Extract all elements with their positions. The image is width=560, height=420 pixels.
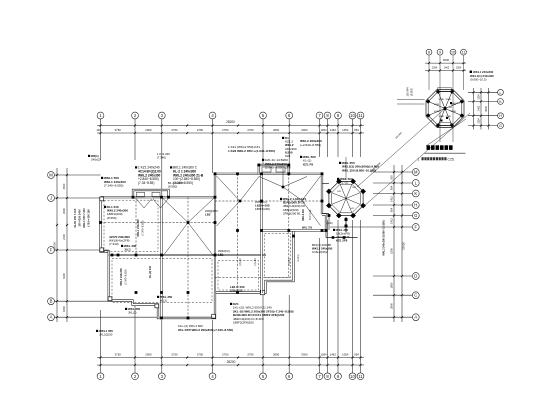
svg-text:8: 8 — [428, 51, 430, 55]
annotation cluster D — [228, 145, 275, 153]
svg-text:C16L2(F8)2: C16L2(F8)2 — [312, 250, 328, 254]
left grid leader lines — [54, 174, 100, 176]
svg-text:15000: 15000 — [53, 242, 57, 250]
svg-text:954: 954 — [390, 207, 394, 212]
svg-text:(8.550): (8.550) — [107, 216, 117, 220]
bottom dimension line total 28200 — [97, 364, 364, 366]
svg-text:C25.: C25. — [448, 157, 455, 161]
roof hip diagonals mid hall — [217, 176, 241, 201]
svg-text:15000: 15000 — [402, 242, 406, 250]
annotation cluster tower bottom — [333, 228, 350, 243]
svg-text:L: L — [500, 91, 502, 95]
annotation cluster below building — [230, 302, 294, 325]
svg-text:100.97%: 100.97% — [451, 103, 460, 105]
bottom grid extension lines — [100, 310, 102, 373]
svg-text:(2)L50: (2)L50 — [239, 258, 242, 266]
detail right dimension lines — [473, 88, 475, 130]
stair tower connection walls — [322, 183, 329, 185]
svg-text:5200: 5200 — [390, 248, 394, 254]
svg-text:9: 9 — [439, 51, 441, 55]
svg-text:1054: 1054 — [320, 128, 327, 132]
svg-text:WXB1: WXB1 — [446, 116, 453, 118]
top dimension line total 28200 — [97, 125, 364, 127]
stair tower octagon on plan — [329, 181, 363, 215]
svg-text:2750: 2750 — [247, 128, 254, 132]
svg-text:1800: 1800 — [390, 282, 394, 288]
detail grid extension lines — [428, 55, 430, 90]
svg-text:188F2(2F8)200: 188F2(2F8)200 — [233, 321, 254, 325]
svg-text:(8.550): (8.550) — [168, 185, 177, 189]
svg-text:A: A — [414, 315, 417, 320]
svg-text:954: 954 — [354, 128, 359, 132]
svg-text:2900: 2900 — [145, 128, 152, 132]
bottom grid bubbles 1-11 — [97, 373, 104, 380]
svg-text:KL2(1): KL2(1) — [297, 254, 300, 261]
detail right grid bubbles L K H G — [498, 89, 504, 95]
interior dashed beam x188 — [187, 197, 189, 318]
svg-text:M: M — [414, 170, 418, 175]
svg-text:1(L4F): 1(L4F) — [326, 223, 333, 225]
svg-text:2F8@200: 2F8@200 — [230, 289, 243, 293]
svg-text:1 K23 WKL2 350=+(1.340~8.550): 1 K23 WKL2 350=+(1.340~8.550) — [228, 149, 275, 153]
svg-text:10: 10 — [350, 374, 355, 379]
slab edge dashed inset room A — [104, 200, 158, 252]
svg-text:1054: 1054 — [456, 67, 462, 70]
bottom dimension line segments — [97, 357, 364, 359]
corner open pads — [100, 197, 104, 201]
svg-text:G: G — [499, 124, 502, 128]
leader line title — [426, 119, 466, 146]
svg-text:WKL1 240x300: WKL1 240x300 — [137, 219, 140, 237]
svg-text:3300: 3300 — [301, 353, 308, 357]
svg-text:100 4150 2400: 100 4150 2400 — [78, 209, 82, 227]
svg-text:(7.340~8.550): (7.340~8.550) — [142, 220, 145, 235]
svg-text:LB2: LB2 — [205, 213, 211, 217]
column pads on walls — [160, 196, 163, 199]
svg-text:(KL2): (KL2) — [160, 299, 167, 303]
svg-text:2750: 2750 — [247, 353, 254, 357]
svg-text:2750: 2750 — [222, 128, 229, 132]
svg-text:3750: 3750 — [115, 353, 122, 357]
svg-text:WXB1: WXB1 — [446, 99, 453, 101]
svg-text:(7.340): (7.340) — [157, 155, 166, 159]
annotation inner room labels — [104, 205, 128, 220]
svg-text:(4)L50: (4)L50 — [254, 258, 257, 266]
annotation cluster E2 — [262, 158, 291, 170]
svg-text:1054: 1054 — [478, 94, 481, 100]
svg-text:WKL1 500 7.340: WKL1 500 7.340 — [82, 208, 86, 228]
detail right leader lines — [468, 91, 498, 93]
left grid bubbles M J F B A — [48, 172, 55, 179]
svg-text:3600: 3600 — [443, 58, 450, 62]
svg-text:(4)L50: (4)L50 — [288, 258, 291, 266]
svg-text:(9.800~10.5): (9.800~10.5) — [470, 77, 487, 81]
svg-text:KZ1 2F8: KZ1 2F8 — [336, 239, 348, 243]
svg-text:WKL2 240x300: WKL2 240x300 — [120, 268, 123, 286]
annotation cluster bottom mid — [178, 324, 233, 332]
roof hip diagonals room 2 — [163, 199, 188, 223]
svg-text:KL-(2) 240: KL-(2) 240 — [149, 265, 152, 278]
svg-text:11: 11 — [358, 374, 363, 379]
svg-text:C: C — [414, 293, 417, 298]
stair tower spokes — [346, 199, 360, 205]
svg-text:2800: 2800 — [390, 303, 394, 309]
svg-text:WKL2 240x300 (9.800~10.550): WKL2 240x300 (9.800~10.550) — [383, 220, 386, 255]
dormer detail bottom label box — [440, 123, 451, 126]
svg-text:WXB1: WXB1 — [434, 111, 441, 113]
right grid leader lines — [373, 171, 412, 173]
svg-text:(7.340~8.550): (7.340~8.550) — [104, 184, 123, 188]
top dimension line segments — [97, 132, 364, 134]
svg-text:L*B h=100 150: L*B h=100 150 — [87, 209, 91, 227]
svg-text:1800: 1800 — [62, 306, 66, 312]
svg-text:2500: 2500 — [62, 183, 66, 189]
detail top dimension lines — [425, 62, 466, 64]
detail left leader lines — [397, 99, 425, 101]
hanging room walls — [215, 231, 294, 293]
svg-text:WXB1: WXB1 — [439, 99, 446, 101]
detail grid bubbles 8-11 — [426, 49, 432, 55]
annotation cluster B — [135, 166, 161, 186]
slab edge dashed inset room lower-mid — [218, 261, 259, 291]
annotation cluster bottom left — [125, 307, 141, 315]
svg-text:(7.340): (7.340) — [109, 242, 119, 246]
svg-text:11: 11 — [358, 113, 363, 118]
svg-text:1462: 1462 — [478, 105, 481, 111]
interior dashed beam x288.75 — [288, 174, 290, 278]
svg-text:1054: 1054 — [432, 67, 438, 70]
svg-text:954: 954 — [390, 185, 394, 190]
svg-text:1054: 1054 — [342, 128, 349, 132]
annotation cluster G — [300, 155, 316, 166]
interior wall x261.5 — [261, 174, 263, 293]
drawing title — [427, 145, 453, 150]
svg-text:105.994: 105.994 — [407, 87, 410, 97]
top grid bubbles 1-11 — [97, 112, 104, 119]
interior dashed beam y277.5 — [264, 277, 291, 279]
svg-text:3750: 3750 — [115, 128, 122, 132]
svg-text:A: A — [50, 315, 53, 320]
top-center dormer bay wall — [259, 165, 289, 174]
leader line to enlarged detail 1 — [357, 109, 445, 188]
svg-text:2750: 2750 — [171, 353, 178, 357]
svg-text:2F8@200 B1: 2F8@200 B1 — [283, 211, 301, 215]
building outer wall — [101, 196, 216, 198]
right vertical dimension lines — [393, 165, 395, 322]
svg-text:2750: 2750 — [197, 353, 204, 357]
lower roof edge right of hanging room — [325, 231, 327, 238]
svg-text:JKL(2): JKL(2) — [128, 311, 137, 315]
svg-text:1462: 1462 — [330, 128, 337, 132]
annotation cluster C — [170, 166, 204, 186]
slab edge dashed inset room lower-left — [112, 259, 212, 303]
svg-text:954: 954 — [354, 353, 359, 357]
svg-text:1462: 1462 — [444, 67, 450, 70]
detail annotation text right — [470, 71, 472, 73]
annotation cluster F — [300, 139, 322, 147]
svg-text:240x(2): 240x(2) — [91, 157, 101, 161]
interior dashed beam x134.5 — [135, 197, 137, 255]
svg-text:2750: 2750 — [197, 128, 204, 132]
svg-text:J: J — [50, 196, 52, 201]
leader line to enlarged detail 2 — [363, 113, 470, 207]
annotation cluster E — [282, 136, 297, 158]
svg-text:500: 500 — [390, 175, 394, 180]
slab edge dashed inset hanging room — [265, 234, 291, 278]
svg-text:28200: 28200 — [226, 120, 235, 124]
dormer detail octagon outer ring — [426, 90, 464, 128]
svg-text:1: 1 — [418, 157, 420, 161]
roof valley diagonals bay — [137, 199, 145, 208]
annotation cluster H — [339, 161, 379, 172]
svg-text:H: H — [499, 114, 502, 118]
svg-text:1054: 1054 — [320, 353, 327, 357]
corner pad open square — [260, 290, 264, 294]
annotation cluster A — [101, 176, 126, 188]
svg-text:2750: 2750 — [171, 128, 178, 132]
tower to wall connector — [328, 214, 330, 230]
annotation cluster above bay — [157, 152, 170, 159]
svg-text:2800: 2800 — [273, 353, 280, 357]
svg-text:1054: 1054 — [342, 353, 349, 357]
svg-text:JKL2(2)00: JKL2(2)00 — [99, 333, 113, 337]
svg-text:(7.34~8.55): (7.34~8.55) — [138, 181, 154, 185]
svg-text:WXB1: WXB1 — [434, 104, 441, 106]
dormer detail inner marks — [446, 117, 448, 119]
interior wall y230.5 — [262, 230, 327, 232]
svg-text:1462: 1462 — [330, 353, 337, 357]
svg-text:(+2.840~8.550): (+2.840~8.550) — [300, 143, 321, 147]
svg-text:1054: 1054 — [478, 118, 481, 124]
svg-text:28200: 28200 — [227, 360, 236, 364]
svg-text:KZ1 F8: KZ1 F8 — [303, 162, 313, 166]
svg-text:188F2(200): 188F2(200) — [255, 207, 270, 211]
svg-text:B1 h=100: B1 h=100 — [309, 209, 312, 220]
svg-text:WXB1: WXB1 — [439, 116, 446, 118]
svg-text:3300: 3300 — [301, 128, 308, 132]
left vertical dimension lines — [56, 168, 58, 322]
svg-text:F: F — [415, 225, 418, 230]
svg-text:B: B — [50, 299, 53, 304]
annotation cluster left of grid1 — [88, 154, 101, 161]
svg-text:10: 10 — [350, 113, 355, 118]
interior dashed beam y277.5 left — [215, 277, 262, 279]
stair tower vertex pads — [360, 203, 366, 209]
interior wall on grid F — [109, 254, 266, 256]
svg-text:3600: 3600 — [484, 105, 488, 111]
dormer detail vertex pads — [460, 113, 464, 117]
svg-text:WXB1: WXB1 — [451, 111, 458, 113]
svg-text:WKL 750: WKL 750 — [302, 227, 313, 230]
svg-text:2750: 2750 — [222, 353, 229, 357]
svg-text:(9.800): (9.800) — [411, 88, 414, 96]
interior dashed beam x237.5 — [237, 174, 239, 293]
svg-text:JB(2): JB(2) — [124, 248, 131, 252]
interior dashed beam y201 — [215, 200, 322, 202]
title underline — [425, 152, 466, 154]
svg-text:400: 400 — [97, 129, 102, 132]
section mark below tower — [345, 217, 347, 232]
svg-text:H: H — [414, 203, 417, 208]
svg-text:10: 10 — [451, 51, 455, 55]
interior wall x214.5 — [214, 197, 216, 293]
svg-text:2100: 2100 — [62, 234, 66, 240]
interior dashed beam y222.5 — [101, 222, 216, 224]
svg-text:2KL-STR WKL2 200x300(+7.340~8.: 2KL-STR WKL2 200x300(+7.340~8.550) — [178, 328, 233, 332]
top-left bay wall — [133, 190, 169, 197]
dormer detail center hub — [443, 107, 446, 110]
svg-text:(7.340~8.550): (7.340~8.550) — [125, 269, 128, 284]
dormer detail top label box — [438, 88, 452, 91]
annotation cluster I — [337, 177, 353, 185]
svg-text:D: D — [414, 274, 417, 279]
tower centre extension line — [345, 157, 347, 180]
svg-text:KL60 150 7.340: KL60 150 7.340 — [73, 208, 77, 227]
svg-text:WKL2 240: WKL2 240 — [302, 209, 305, 221]
dormer detail spokes — [445, 109, 462, 116]
svg-text:2900: 2900 — [62, 208, 66, 214]
svg-text:11: 11 — [462, 51, 466, 55]
svg-text:5200: 5200 — [62, 273, 66, 279]
interior wall x161.5 — [161, 197, 163, 317]
svg-text:2900: 2900 — [145, 353, 152, 357]
svg-text:(2.840~8.550) 2F8: (2.840~8.550) 2F8 — [265, 166, 291, 170]
svg-text:KL-(1): KL-(1) — [340, 181, 348, 185]
svg-text:M: M — [49, 173, 53, 178]
svg-text:G: G — [414, 213, 417, 218]
svg-text:2800: 2800 — [273, 128, 280, 132]
svg-text:K: K — [414, 191, 417, 196]
right grid bubbles M L K H G F D C A — [412, 169, 419, 176]
annotation cluster right of plan — [312, 243, 333, 254]
svg-text:1412: 1412 — [390, 196, 394, 202]
svg-text:LB1: LB1 — [218, 253, 224, 257]
mid hall junction pads — [239, 200, 242, 203]
svg-text:1412: 1412 — [390, 218, 394, 224]
top grid extension lines — [100, 119, 102, 160]
